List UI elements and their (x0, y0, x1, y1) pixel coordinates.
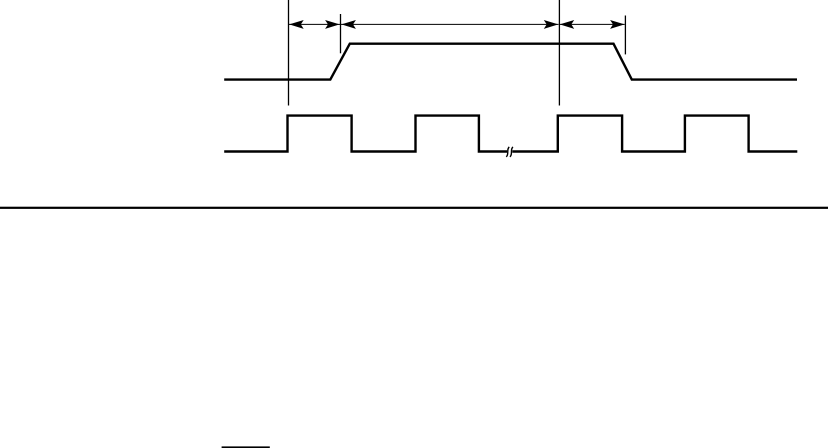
clock waveform (lower trace, left of break) (224, 116, 507, 152)
tick mark t1 (50% crossing of rising edge) (340, 14, 342, 53)
dimension arrow d3 (between right reference line and tick t2) (560, 20, 625, 29)
node A reference line (left vertical cursor through waveforms) (288, 0, 290, 106)
dimension arrow d1 (between left reference line and tick t1) (289, 20, 340, 29)
node B reference line (right vertical cursor through waveforms) (558, 0, 560, 106)
dimension arrow d2 (between tick t1 and right reference line) (341, 20, 559, 29)
clock waveform (lower trace, right of break) (512, 116, 797, 152)
horizontal page rule (0, 207, 828, 209)
tick mark t2 (50% crossing of falling edge) (624, 16, 626, 55)
wire break symbol (double slash on clock low line) (506, 147, 513, 157)
signal waveform (upper trace with slanted edges) (224, 44, 797, 80)
overline bar (cut-off signal name overbar at page bottom) (222, 446, 270, 448)
